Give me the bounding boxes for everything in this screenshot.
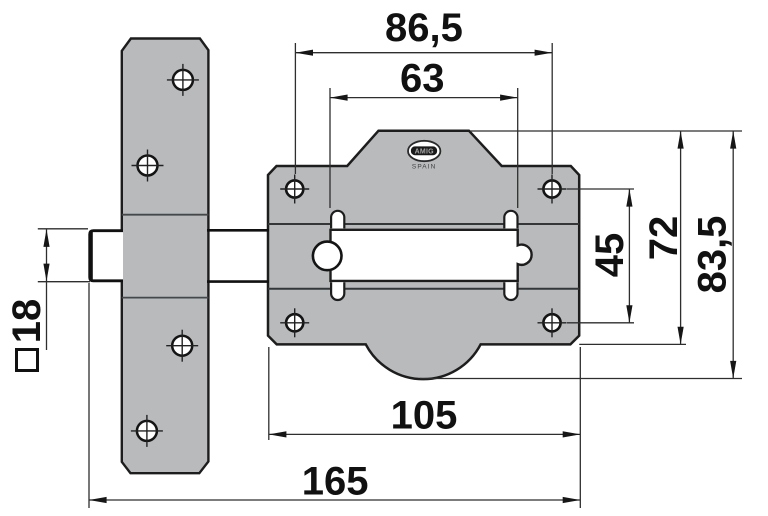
svg-text:63: 63: [400, 56, 445, 100]
svg-text:86,5: 86,5: [385, 6, 463, 50]
svg-text:83,5: 83,5: [691, 216, 735, 294]
svg-text:72: 72: [642, 216, 686, 261]
svg-text:45: 45: [588, 233, 632, 278]
svg-text:165: 165: [302, 460, 369, 504]
svg-text:105: 105: [391, 394, 458, 438]
svg-text:18: 18: [5, 299, 49, 344]
svg-text:SPAIN: SPAIN: [412, 163, 437, 170]
svg-text:AMIG: AMIG: [415, 149, 434, 156]
